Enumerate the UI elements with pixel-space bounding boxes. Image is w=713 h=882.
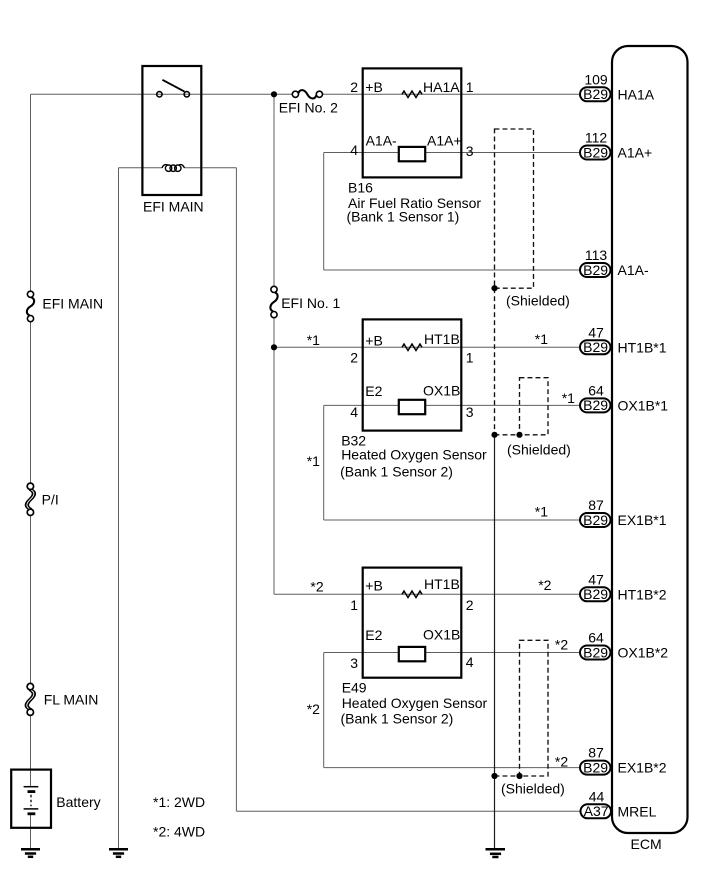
junction node relay output / EFI No.1 branch xyxy=(271,91,277,97)
svg-text:*2: *2 xyxy=(538,577,551,593)
svg-text:4: 4 xyxy=(350,404,358,420)
svg-text:E2: E2 xyxy=(365,627,382,643)
wire B16 pin4 vertical drop xyxy=(323,153,325,271)
relay EFI MAIN xyxy=(142,66,201,195)
svg-text:HT1B*1: HT1B*1 xyxy=(618,339,667,355)
svg-text:OX1B: OX1B xyxy=(423,383,460,399)
shield dashed link to drain at OX1B*1 xyxy=(495,434,520,436)
svg-text:Heated Oxygen Sensor: Heated Oxygen Sensor xyxy=(341,447,487,463)
svg-text:FL MAIN: FL MAIN xyxy=(44,692,99,708)
svg-text:HA1A: HA1A xyxy=(618,86,655,102)
svg-text:EX1B*2: EX1B*2 xyxy=(618,760,667,776)
shield dashed box around A1A+/A1A- wires xyxy=(495,129,534,288)
heater box (B32) xyxy=(399,400,425,414)
svg-text:2: 2 xyxy=(350,349,358,365)
svg-text:P/I: P/I xyxy=(42,492,59,508)
svg-text:44: 44 xyxy=(589,788,605,804)
wire EFI No.1 branch vertical (junction to fuse) xyxy=(273,94,275,286)
svg-text:OX1B*1: OX1B*1 xyxy=(618,397,669,413)
svg-text:HA1A: HA1A xyxy=(423,79,460,95)
svg-text:E49: E49 xyxy=(342,679,367,695)
battery xyxy=(11,770,51,828)
svg-text:A1A-: A1A- xyxy=(366,133,397,149)
svg-text:HT1B: HT1B xyxy=(424,576,460,592)
wire B16 A1A+ row through heater to ECM xyxy=(324,152,580,154)
connector B29 pin 112 xyxy=(580,130,611,161)
wire battery feed vertical (between P/I and FL MAIN) xyxy=(30,516,32,684)
svg-text:EFI MAIN: EFI MAIN xyxy=(143,198,204,214)
ground for shield drain xyxy=(486,849,506,857)
wire B32 pin4 vertical drop xyxy=(323,405,325,520)
shield dashed link to drain at EX1B*2 xyxy=(495,775,520,777)
svg-text:1: 1 xyxy=(466,349,474,365)
svg-text:EFI No. 2: EFI No. 2 xyxy=(279,100,338,116)
svg-text:A37: A37 xyxy=(584,803,609,819)
svg-text:(Bank 1 Sensor 2): (Bank 1 Sensor 2) xyxy=(340,463,453,479)
wire from EFI No.2 fuse to B16 +B row through resistor to ECM HA1A xyxy=(323,93,580,95)
fuse EFI No. 1 xyxy=(270,286,277,317)
svg-text:A1A-: A1A- xyxy=(618,262,649,278)
wire A1A- row to ECM xyxy=(324,269,580,271)
svg-text:B29: B29 xyxy=(583,262,608,278)
svg-text:*1: 2WD: *1: 2WD xyxy=(153,794,205,810)
heater box (B16) xyxy=(399,147,425,161)
wire MREL horizontal to ECM A37 xyxy=(236,810,580,812)
wire EFI No.1 fuse to +B branches vertical xyxy=(273,318,275,595)
wire E49 pin3 vertical drop xyxy=(323,653,325,768)
svg-text:2: 2 xyxy=(466,597,474,613)
svg-text:112: 112 xyxy=(585,130,608,146)
svg-text:*1: *1 xyxy=(562,390,575,406)
svg-text:*1: *1 xyxy=(535,331,548,347)
fuse EFI No. 2 xyxy=(292,90,322,98)
svg-text:*1: *1 xyxy=(307,453,320,469)
svg-text:(Bank 1 Sensor 1): (Bank 1 Sensor 1) xyxy=(347,208,460,224)
wire E49 +B row through resistor to ECM HT1B*2 xyxy=(274,593,580,595)
svg-text:ECM: ECM xyxy=(631,836,662,852)
shield drain solid vertical to ground xyxy=(494,435,496,848)
svg-text:A1A+: A1A+ xyxy=(618,145,653,161)
wire EX1B*2 row to ECM xyxy=(324,767,580,769)
svg-text:4: 4 xyxy=(466,654,474,670)
svg-text:B29: B29 xyxy=(583,86,608,102)
connector B29 pin 109 xyxy=(580,71,611,102)
svg-text:*1: *1 xyxy=(535,504,548,520)
svg-text:A1A+: A1A+ xyxy=(427,133,462,149)
svg-text:47: 47 xyxy=(588,324,604,340)
connector B29 pin 64 (OX1B*1) xyxy=(580,382,611,413)
svg-text:B29: B29 xyxy=(583,144,608,160)
connector B29 pin 47 (HT1B*1) xyxy=(580,324,611,355)
svg-text:Battery: Battery xyxy=(56,794,100,810)
connector B29 pin 47 (HT1B*2) xyxy=(580,571,611,602)
ECM box xyxy=(612,46,688,833)
svg-text:E2: E2 xyxy=(365,383,382,399)
svg-text:B16: B16 xyxy=(348,180,373,196)
svg-text:47: 47 xyxy=(588,571,604,587)
fusible link P/I xyxy=(26,483,35,515)
svg-text:Heated Oxygen Sensor: Heated Oxygen Sensor xyxy=(342,695,488,711)
junction node drain line at second shield xyxy=(491,432,497,438)
svg-text:3: 3 xyxy=(350,655,358,671)
svg-text:113: 113 xyxy=(585,247,608,263)
sensor box B16 xyxy=(363,68,462,177)
wire top horizontal B+ to relay switch and EFI No.2 fuse xyxy=(31,93,293,95)
svg-text:*1: *1 xyxy=(307,332,320,348)
junction node +B branch to B32 xyxy=(271,344,277,350)
svg-text:EFI MAIN: EFI MAIN xyxy=(42,296,103,312)
svg-text:4: 4 xyxy=(350,142,358,158)
svg-text:*2: *2 xyxy=(555,754,568,770)
junction node shield drain at first shield xyxy=(491,285,497,291)
connector B29 pin 113 xyxy=(580,247,611,278)
svg-text:B29: B29 xyxy=(583,586,608,602)
svg-text:EX1B*1: EX1B*1 xyxy=(618,512,667,528)
junction node drain line at third shield xyxy=(491,773,497,779)
svg-text:HT1B: HT1B xyxy=(424,331,460,347)
svg-text:3: 3 xyxy=(466,404,474,420)
svg-text:B29: B29 xyxy=(583,512,608,528)
svg-text:(Bank 1 Sensor 2): (Bank 1 Sensor 2) xyxy=(341,710,454,726)
resistor heater element HT1B (E49) xyxy=(402,591,422,597)
svg-text:*2: *2 xyxy=(307,701,320,717)
connector B29 pin 64 (OX1B*2) xyxy=(580,630,611,661)
wire relay coil left to ground rail xyxy=(119,167,163,169)
wire MREL vertical from relay coil xyxy=(235,168,237,812)
svg-text:*2: *2 xyxy=(555,636,568,652)
resistor heater element HA1A (B16) xyxy=(402,91,422,97)
svg-text:+B: +B xyxy=(365,333,383,349)
svg-text:87: 87 xyxy=(588,497,604,513)
shield dashed box around OX1B*1 wire xyxy=(520,378,549,435)
wire battery feed vertical (between EFI MAIN fuse and P/I) xyxy=(30,322,32,483)
svg-text:*2: *2 xyxy=(310,579,323,595)
wire battery feed vertical (FL MAIN to battery plate) xyxy=(30,716,32,787)
svg-text:109: 109 xyxy=(584,71,608,87)
svg-text:(Shielded): (Shielded) xyxy=(501,781,565,797)
resistor heater element HT1B (B32) xyxy=(402,344,422,350)
connector A37 pin 44 (MREL) xyxy=(581,788,612,819)
sensor box E49 xyxy=(363,568,462,678)
svg-text:64: 64 xyxy=(588,382,604,398)
sensor box B32 xyxy=(363,319,462,430)
wire ground rail vertical xyxy=(118,168,120,848)
svg-text:*2: 4WD: *2: 4WD xyxy=(153,824,205,840)
svg-text:64: 64 xyxy=(588,630,604,646)
fuse EFI MAIN xyxy=(27,291,34,322)
svg-text:(Shielded): (Shielded) xyxy=(506,293,570,309)
svg-text:HT1B*2: HT1B*2 xyxy=(618,586,667,602)
junction node third shield corner xyxy=(516,773,522,779)
wire B32 OX1B row through heater to ECM OX1B*1 xyxy=(324,404,580,406)
svg-text:OX1B*2: OX1B*2 xyxy=(618,645,669,661)
svg-text:1: 1 xyxy=(350,597,358,613)
shield drain dashed vertical segment xyxy=(494,288,496,435)
svg-text:2: 2 xyxy=(350,79,358,95)
svg-text:1: 1 xyxy=(466,79,474,95)
svg-text:OX1B: OX1B xyxy=(423,627,460,643)
svg-text:+B: +B xyxy=(365,578,383,594)
svg-text:87: 87 xyxy=(588,745,604,761)
wire battery feed vertical (upper segment) xyxy=(30,94,32,291)
svg-text:3: 3 xyxy=(466,143,474,159)
svg-text:B29: B29 xyxy=(583,397,608,413)
wire relay coil right horizontal xyxy=(184,167,236,169)
fusible link FL MAIN xyxy=(26,683,35,715)
shield dashed box around OX1B*2/EX1B*2 wires xyxy=(520,640,549,776)
wire B32 +B row from junction through resistor to ECM HT1B*1 xyxy=(274,346,580,348)
heater box (E49) xyxy=(399,647,425,661)
svg-text:(Shielded): (Shielded) xyxy=(507,442,571,458)
wire battery negative to ground xyxy=(30,814,32,848)
svg-text:B29: B29 xyxy=(583,339,608,355)
svg-text:+B: +B xyxy=(365,79,383,95)
svg-text:EFI No. 1: EFI No. 1 xyxy=(281,295,340,311)
ground below battery xyxy=(21,849,40,857)
connector B29 pin 87 (EX1B*2) xyxy=(580,745,611,776)
svg-text:B29: B29 xyxy=(583,759,608,775)
wire E49 OX1B row through heater to ECM OX1B*2 xyxy=(324,652,580,654)
connector B29 pin 87 (EX1B*1) xyxy=(580,497,611,528)
wire EX1B*1 row to ECM xyxy=(324,519,580,521)
junction node second shield corner xyxy=(516,432,522,438)
ground for relay coil rail xyxy=(109,849,128,857)
svg-text:MREL: MREL xyxy=(618,803,657,819)
svg-text:B29: B29 xyxy=(583,644,608,660)
